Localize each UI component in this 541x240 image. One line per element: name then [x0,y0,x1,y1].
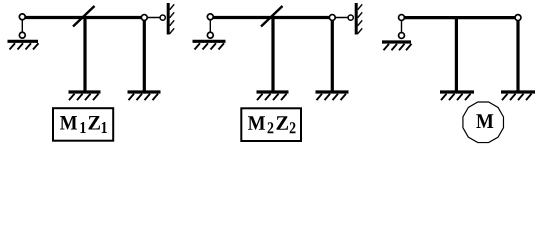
frame 1 beam [22,16,144,19]
frame 3 left column fixed support bar [440,90,474,93]
frame 3 left link support: ground bar [382,40,411,43]
frame 2 left link support: ground hatches [195,43,225,49]
frame 3 right column [516,18,519,91]
frame 1 left column fixed support hatches [69,94,99,100]
frame 2 left column [271,18,274,91]
frame 2 wall line [355,3,358,35]
frame 3 right column fixed support bar [501,90,535,93]
frame 3 beam [402,16,519,19]
frame 1 right column fixed support hatches [129,94,159,100]
frame 1 wall line [167,3,170,35]
frame 3 left link support: ground hatches [384,44,412,50]
frame 1 right column [143,18,146,91]
frame 1 wall pin circle [160,15,165,20]
frame 1 left link support: ground bar [8,40,39,43]
frame 1 left column [83,18,86,91]
frame 2 label text M2Z2 [248,116,295,133]
frame 2 right column fixed support bar [316,90,349,93]
frame 2 left link support: vertical link [209,17,211,35]
frame 3 left link support: upper pin circle [399,15,405,21]
frame 1 right column fixed support bar [128,90,161,93]
frame 2 horizontal link to wall [332,17,350,19]
frame 2 beam [210,16,332,19]
frame 1 left link support: lower pin circle [19,32,25,38]
frame 2 right column [331,18,334,91]
frame 1 left link support: ground hatches [10,43,39,49]
frame 3 beam end pin circle [515,15,521,21]
frame 2 wall pin circle [348,15,353,20]
frame 1 left column fixed support bar [69,90,101,93]
frame 3 right column fixed support hatches [502,94,532,100]
frame 2 left link support: lower pin circle [207,32,213,38]
frame 2 left link support: ground bar [193,40,226,43]
frame 1 rigid joint slash [73,6,95,27]
frame 3 left column fixed support hatches [441,94,471,100]
frame 3 motor label M [476,114,493,128]
frame 1 left link support: upper pin circle [19,14,25,20]
frame 2 left column fixed support hatches [257,94,287,100]
frame 2 label box [241,108,301,141]
frame 3 left link support: vertical link [401,18,403,36]
frame 2 rigid joint slash [261,6,283,27]
frame 1 left link support: vertical link [21,17,23,35]
frame 2 beam-column pin circle [329,15,335,21]
frame 2 left column fixed support bar [257,90,289,93]
frame 2 left link support: upper pin circle [207,14,213,20]
frame 3 left link support: lower pin circle [399,33,405,39]
frame 1 wall hatches [170,4,175,34]
frame 2 wall hatches [358,4,363,34]
frame 1 label text M1Z1 [60,116,107,133]
frame 3 left column [455,18,458,91]
frame 3 motor circle M [463,102,504,143]
frame 2 right column fixed support hatches [317,94,347,100]
frame 1 label box [53,108,113,141]
frame 1 beam-column pin circle [141,15,147,21]
frame 1 horizontal link to wall [144,17,162,19]
